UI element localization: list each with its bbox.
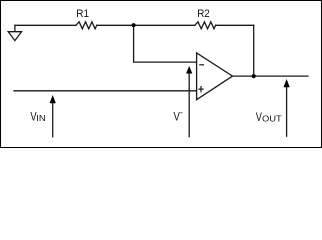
svg-text:R1: R1 bbox=[76, 8, 89, 20]
svg-text:OUT: OUT bbox=[262, 114, 282, 123]
svg-text:-: - bbox=[180, 108, 183, 118]
svg-text:R2: R2 bbox=[197, 8, 210, 20]
svg-text:IN: IN bbox=[36, 114, 46, 123]
